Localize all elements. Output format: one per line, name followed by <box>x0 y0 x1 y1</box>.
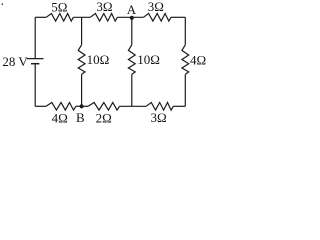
wire branch2 upper <box>131 17 133 45</box>
wire branch1 lower <box>81 74 83 106</box>
svg-text:3Ω: 3Ω <box>151 110 167 125</box>
resistor 10ohm left <box>78 45 85 75</box>
resistor 5ohm top-left <box>46 14 73 22</box>
wire between 4ohm and node B <box>76 105 88 107</box>
svg-text:10Ω: 10Ω <box>137 52 160 67</box>
node A dot <box>130 16 134 20</box>
svg-text:3Ω: 3Ω <box>96 0 112 14</box>
svg-text:4Ω: 4Ω <box>190 52 206 67</box>
wire bottom-left segment <box>35 105 46 107</box>
node B dot <box>80 104 84 108</box>
wire between 2ohm and 3ohm bottom <box>120 105 147 107</box>
svg-text:2Ω: 2Ω <box>96 111 112 126</box>
svg-text:3Ω: 3Ω <box>148 0 164 14</box>
svg-text:5Ω: 5Ω <box>51 0 67 15</box>
stray mark top-left <box>1 3 3 5</box>
svg-text:B: B <box>76 110 85 125</box>
wire left edge above battery <box>34 17 36 58</box>
resistor 4ohm right <box>182 45 189 75</box>
wire left edge below battery <box>34 64 36 106</box>
wire top between 5ohm and 3ohm <box>73 16 90 18</box>
resistor 2ohm bottom <box>88 103 119 111</box>
resistor 3ohm top-middle <box>90 14 117 22</box>
resistor 3ohm top-right <box>143 14 171 22</box>
wire branch2 lower <box>131 74 133 106</box>
wire top between 3ohm and node A <box>117 16 143 18</box>
resistor 3ohm bottom <box>146 103 173 111</box>
wire top-right segment <box>171 16 185 18</box>
svg-text:4Ω: 4Ω <box>52 111 68 126</box>
svg-text:28 V: 28 V <box>2 54 28 69</box>
wire branch1 upper <box>81 17 83 45</box>
wire top-left segment <box>35 16 46 18</box>
wire bottom-right segment <box>173 105 185 107</box>
resistor 10ohm right <box>128 45 135 75</box>
resistor 4ohm bottom <box>46 103 76 111</box>
battery 28V <box>27 59 44 64</box>
wire right edge upper <box>184 17 186 45</box>
svg-text:A: A <box>127 2 137 17</box>
wire right edge lower <box>184 74 186 106</box>
svg-text:10Ω: 10Ω <box>87 52 110 67</box>
